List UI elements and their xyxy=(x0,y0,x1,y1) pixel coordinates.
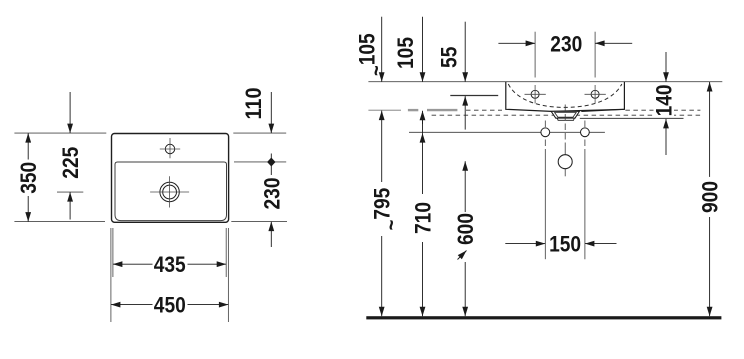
svg-text:110: 110 xyxy=(241,88,266,120)
svg-text:710: 710 xyxy=(411,202,436,234)
svg-text:435: 435 xyxy=(154,252,186,277)
svg-text:350: 350 xyxy=(16,162,41,194)
svg-text:600: 600 xyxy=(453,213,478,245)
svg-text:450: 450 xyxy=(154,293,186,318)
svg-text:900: 900 xyxy=(698,181,723,213)
svg-text:105: 105 xyxy=(393,37,418,69)
svg-text:150: 150 xyxy=(549,232,581,257)
svg-text:140: 140 xyxy=(651,84,676,116)
svg-text:~795: ~795 xyxy=(370,188,404,231)
svg-text:~105: ~105 xyxy=(354,33,388,76)
svg-text:225: 225 xyxy=(58,147,83,179)
svg-text:55: 55 xyxy=(437,47,462,68)
svg-text:230: 230 xyxy=(550,31,582,56)
svg-text:230: 230 xyxy=(259,178,284,210)
